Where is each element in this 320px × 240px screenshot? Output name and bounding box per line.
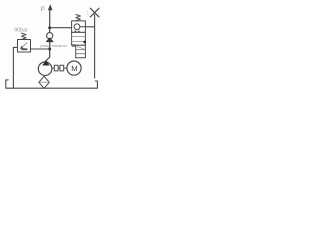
svg-text:90bar: 90bar [14, 28, 28, 34]
motor M1 [67, 61, 81, 75]
pilot check valve internal port line [80, 26, 86, 28]
port P arrow [48, 4, 53, 10]
pilot check valve ball [74, 24, 80, 30]
pump P1 [38, 62, 52, 76]
wire: check valve to port line [85, 26, 94, 28]
wire: pump-motor shaft [52, 67, 67, 69]
check valve CV1 ball [47, 33, 53, 39]
pilot check valve spring [76, 15, 81, 21]
node: branch to relief valve [48, 48, 51, 51]
pump outlet triangle [42, 60, 49, 66]
relief valve RV1 flow arrow [22, 43, 27, 48]
coupling joint 1 [54, 65, 58, 71]
svg-text:1: 1 [86, 11, 89, 17]
wire: branch P line to pilot check valve [50, 27, 72, 29]
wire: relief valve drain to tank [13, 47, 17, 88]
node: branch to release valve block [48, 26, 51, 29]
suction strainer F1 [39, 76, 50, 88]
release valve V2 body [72, 32, 86, 45]
pilot check valve seat notch [75, 31, 79, 33]
release valve internal line 2 [72, 41, 86, 43]
wire: pressure line from pump to port P [46, 10, 50, 61]
svg-text:M: M [71, 64, 77, 73]
coupling joint 2 [60, 65, 64, 71]
svg-text:pressure release sol.: pressure release sol. [40, 44, 68, 48]
wire: plugged port line [94, 15, 96, 79]
release valve internal line 1 [72, 35, 86, 37]
pilot check valve body [72, 21, 86, 33]
wire: relief valve branch [31, 48, 50, 50]
solenoid / adjuster box [76, 45, 86, 58]
release valve port dot [84, 41, 86, 43]
relief valve RV1 body [18, 40, 31, 53]
plugged port X [90, 8, 99, 17]
tank (reservoir) [6, 80, 98, 88]
check valve CV1 seat [46, 38, 53, 42]
relief valve RV1 spring [21, 33, 26, 39]
svg-text:P: P [41, 7, 45, 13]
